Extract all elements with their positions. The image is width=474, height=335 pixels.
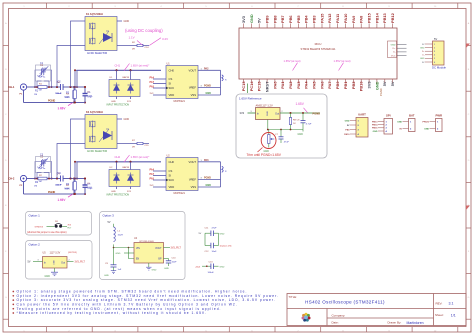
ground U4 — [148, 263, 150, 267]
svg-text:CH0: CH0 — [169, 68, 175, 72]
svg-text:PB7: PB7 — [280, 15, 285, 23]
wire riser to PGA input — [74, 70, 76, 87]
svg-text:3: 3 — [38, 260, 39, 262]
wire out net — [280, 112, 320, 114]
svg-text:STM32 BlackPill STM32F411: STM32 BlackPill STM32F411 — [301, 47, 336, 51]
svg-text:PA10: PA10 — [344, 133, 350, 136]
diode D2 BAT99 input protection — [116, 162, 118, 170]
svg-text:PA3: PA3 — [296, 81, 301, 89]
svg-text:PA4: PA4 — [150, 76, 155, 79]
svg-text:PC15: PC15 — [257, 81, 262, 92]
wire VREF net PGND — [198, 179, 221, 181]
MCU U3 STM32 BlackPill — [239, 28, 397, 79]
svg-text:GND: GND — [124, 118, 130, 121]
svg-text:STM3V3: STM3V3 — [35, 226, 44, 228]
svg-text:GND: GND — [124, 20, 130, 23]
wire PGA input — [77, 161, 161, 163]
svg-text:1.65V (at rest)*: 1.65V (at rest)* — [131, 64, 151, 68]
svg-text:PB10: PB10 — [359, 82, 364, 92]
svg-text:SI: SI — [169, 174, 172, 178]
svg-text:PB13: PB13 — [382, 12, 387, 23]
red trim circle — [261, 133, 276, 149]
svg-text:100nF: 100nF — [56, 185, 63, 187]
svg-text:GND: GND — [54, 260, 56, 265]
svg-text:PB14: PB14 — [374, 12, 379, 23]
svg-text:VREF: VREF — [189, 178, 197, 182]
wire PGND rail — [23, 182, 25, 194]
svg-text:GND: GND — [391, 44, 396, 46]
svg-text:PA4: PA4 — [150, 168, 155, 171]
svg-text:1.65V: 1.65V — [58, 198, 66, 202]
svg-text:PB3: PB3 — [312, 15, 317, 23]
wire PGND rail — [23, 182, 25, 194]
svg-text:1M: 1M — [39, 90, 42, 92]
svg-text:PA5: PA5 — [150, 85, 155, 88]
svg-text:5V: 5V — [108, 221, 111, 224]
svg-text:GND: GND — [420, 47, 425, 49]
wire right vertical — [220, 70, 222, 95]
svg-text:3.1: 3.1 — [449, 302, 454, 306]
svg-text:SI: SI — [169, 82, 172, 86]
svg-text:K2 AQY210EH: K2 AQY210EH — [86, 111, 103, 114]
svg-text:3V3: 3V3 — [241, 15, 246, 23]
border marker right 1 — [466, 44, 470, 49]
svg-text:0R: 0R — [132, 147, 135, 149]
wire PGND rail — [23, 90, 25, 102]
svg-text:Drawn By:: Drawn By: — [388, 321, 402, 325]
MCU pin labels — [241, 12, 395, 92]
option 1 block — [26, 212, 92, 236]
svg-text:0R: 0R — [132, 49, 135, 51]
svg-text:REV:: REV: — [436, 302, 443, 306]
svg-text:3V3: 3V3 — [367, 81, 372, 89]
capacitor C5 47pF — [84, 87, 86, 93]
wire PGA input — [75, 69, 161, 71]
wire opto pin4 — [57, 144, 85, 179]
svg-text:NRST: NRST — [264, 81, 269, 92]
svg-text:3.2V: 3.2V — [162, 37, 168, 41]
wire PGND rail — [23, 90, 25, 102]
resistor R3 500K — [74, 87, 76, 90]
svg-text:PA7: PA7 — [327, 82, 332, 89]
svg-text:VCC: VCC — [391, 55, 396, 57]
wire trimmer leads — [36, 81, 38, 87]
svg-text:CH-1: CH-1 — [8, 85, 15, 89]
svg-text:Out: Out — [61, 262, 65, 265]
svg-text:5V: 5V — [257, 18, 262, 23]
svg-text:1M: 1M — [39, 181, 42, 183]
border marker right 2 — [466, 206, 470, 211]
svg-text:GND: GND — [45, 275, 51, 278]
svg-text:PC14: PC14 — [249, 81, 254, 92]
capacitor C5 47pF — [84, 87, 86, 94]
svg-text:*Measure influenced by testing: *Measure influenced by testing instrumen… — [17, 311, 207, 315]
svg-text:SCK: SCK — [169, 86, 175, 90]
svg-text:PA11: PA11 — [335, 13, 340, 23]
svg-text:PA9: PA9 — [351, 15, 356, 23]
svg-text:CS: CS — [169, 77, 173, 81]
svg-text:D-: D- — [393, 52, 396, 54]
notes text block — [12, 290, 278, 316]
title block — [287, 294, 466, 326]
svg-text:TITLE:: TITLE: — [289, 295, 298, 299]
svg-text:GND: GND — [220, 233, 225, 235]
wire SPI control nets — [153, 78, 166, 80]
svg-text:PA0: PA0 — [272, 82, 277, 89]
svg-text:CS: CS — [169, 169, 173, 173]
1.65V reference block — [236, 94, 327, 158]
capacitor C6 47pF — [84, 179, 86, 185]
svg-text:(Option 2/3): (Option 2/3) — [220, 245, 232, 248]
svg-text:PGND: PGND — [204, 177, 211, 180]
opto pin2 GND — [117, 118, 122, 120]
option 3 block — [100, 212, 186, 280]
svg-text:SPI: SPI — [386, 114, 391, 118]
svg-text:PROG: PROG — [423, 121, 430, 123]
diode D1 BAT99 input protection — [116, 70, 118, 79]
svg-text:7pF ca: 7pF ca — [37, 76, 44, 78]
svg-text:PB5: PB5 — [296, 15, 301, 23]
svg-text:PB4: PB4 — [304, 15, 309, 23]
svg-text:PGND: PGND — [48, 99, 55, 102]
logo — [302, 313, 311, 322]
svg-text:(using DC coupling): (using DC coupling) — [125, 28, 163, 33]
trimmer RV1 — [268, 130, 270, 135]
svg-text:MCP6S21: MCP6S21 — [174, 100, 186, 103]
svg-text:PGND: PGND — [379, 88, 383, 96]
svg-text:Option 2: Option 2 — [29, 243, 41, 247]
svg-text:BAT99: BAT99 — [123, 166, 130, 169]
svg-text:3V3_FILT: 3V3_FILT — [75, 261, 86, 264]
svg-text:INPUT PROTECTION: INPUT PROTECTION — [107, 104, 130, 106]
svg-text:GND: GND — [111, 191, 116, 193]
wire gnd mid — [267, 120, 269, 130]
svg-text:47pF: 47pF — [88, 188, 94, 190]
svg-text:GND: GND — [345, 120, 350, 122]
wire riser to PGA input — [74, 162, 76, 179]
svg-text:CH0: CH0 — [169, 160, 175, 164]
svg-text:PA8: PA8 — [359, 15, 364, 23]
option 2 block — [26, 241, 93, 280]
jumper W1 — [47, 225, 55, 227]
trimmer capacitor C1 7pF — [36, 65, 51, 81]
svg-text:CH-2: CH-2 — [8, 176, 15, 180]
svg-text:GND: GND — [424, 128, 429, 130]
svg-text:1117-3.3V: 1117-3.3V — [50, 252, 61, 255]
capacitor C4 100nF — [59, 176, 61, 182]
svg-text:EN: EN — [136, 258, 140, 260]
svg-text:CH1: CH1 — [115, 64, 121, 68]
wire to VIN — [114, 244, 135, 247]
svg-text:PB15: PB15 — [372, 128, 378, 130]
svg-text:GND: GND — [267, 111, 269, 116]
svg-text:VDD: VDD — [169, 93, 175, 97]
svg-text:GND: GND — [397, 121, 402, 123]
wire riser to PGA input — [76, 162, 78, 179]
svg-text:PA3: PA3 — [204, 159, 209, 162]
wire VOUT — [164, 247, 171, 249]
svg-text:3V3: 3V3 — [68, 225, 71, 227]
svg-text:BP: BP — [158, 258, 162, 260]
svg-text:1.65V (at rest): 1.65V (at rest) — [284, 59, 301, 63]
resistor R4 500K — [74, 179, 76, 182]
capacitor C4 100nF — [59, 176, 61, 182]
svg-text:G: G — [5, 297, 7, 299]
svg-text:500K: 500K — [65, 188, 71, 190]
wire opto pin1 — [71, 21, 86, 87]
svg-text:500K: 500K — [65, 96, 71, 98]
svg-text:PA15: PA15 — [319, 13, 324, 23]
svg-text:3V3_FILT: 3V3_FILT — [171, 247, 182, 250]
svg-text:AC/DC SELECTOR: AC/DC SELECTOR — [87, 150, 107, 153]
wire EN tie — [129, 248, 135, 259]
svg-text:GND: GND — [164, 268, 169, 270]
svg-text:GND: GND — [249, 14, 254, 23]
wire right vertical — [220, 162, 222, 187]
svg-text:GND: GND — [152, 270, 157, 272]
svg-text:PB1: PB1 — [343, 81, 348, 89]
inductor L1 10uH — [113, 224, 115, 227]
svg-text:PWR: PWR — [435, 114, 442, 118]
svg-text:1uF: 1uF — [118, 269, 122, 271]
svg-text:10uH: 10uH — [118, 234, 124, 236]
MCU usb pins — [388, 41, 397, 58]
svg-text:PB0: PB0 — [335, 82, 340, 90]
svg-text:GND: GND — [374, 81, 379, 90]
svg-text:BAT: BAT — [409, 114, 415, 118]
svg-text:GND: GND — [206, 184, 212, 187]
svg-text:PA4: PA4 — [304, 81, 309, 89]
svg-text:Option 3: Option 3 — [103, 214, 115, 218]
svg-text:MCU: MCU — [315, 42, 322, 46]
svg-text:GND: GND — [220, 266, 225, 268]
wire main input — [27, 86, 61, 88]
svg-text:47pF: 47pF — [88, 97, 94, 99]
svg-text:PA2: PA2 — [204, 68, 209, 71]
svg-text:47uF: 47uF — [284, 142, 290, 144]
wire VREF net PGND — [198, 87, 221, 89]
svg-text:Option 1: Option 1 — [29, 214, 41, 218]
capacitor C2 100nF — [59, 84, 61, 90]
svg-text:AC/DC SELECTOR: AC/DC SELECTOR — [87, 52, 107, 55]
svg-text:VIN: VIN — [136, 248, 140, 250]
wire U4 gnd left — [124, 252, 134, 254]
resistor R8 1K — [290, 113, 292, 118]
resistor R1 1M — [38, 86, 47, 89]
svg-text:PA12: PA12 — [327, 13, 332, 23]
ground — [54, 268, 56, 272]
svg-text:PA7: PA7 — [150, 173, 155, 176]
capacitor C2 100nF — [59, 84, 61, 90]
wire 3V3 in — [248, 112, 256, 114]
svg-text:2: 2 — [69, 260, 70, 262]
wire SPI control nets — [153, 170, 166, 172]
wire opto pin1 — [71, 119, 86, 179]
svg-text:1.65V: 1.65V — [58, 106, 66, 110]
wire VSS net GND — [198, 186, 221, 188]
svg-text:1M: 1M — [34, 94, 37, 96]
svg-text:PC13: PC13 — [241, 81, 246, 92]
capacitor C10 10nF — [164, 258, 169, 260]
svg-text:PGND: PGND — [313, 112, 321, 116]
svg-text:(NOTE3): (NOTE3) — [68, 252, 77, 254]
resistor R2 1M — [38, 177, 47, 180]
wire main input — [27, 86, 61, 88]
svg-text:GND: GND — [104, 275, 109, 277]
capacitor C7 47uF — [280, 130, 282, 137]
wire VOUT net — [198, 69, 221, 71]
svg-text:HS402 Oscilloscope (STM32F411): HS402 Oscilloscope (STM32F411) — [305, 300, 385, 305]
svg-text:+Batt: +Batt — [195, 265, 201, 268]
svg-text:Martinloren: Martinloren — [407, 321, 424, 325]
svg-text:GND: GND — [420, 58, 425, 60]
wire opto pin3 / resistor R7 0R — [117, 143, 149, 145]
trimmer capacitor C3 7pF — [36, 157, 51, 173]
svg-text:VOUT: VOUT — [189, 160, 197, 164]
svg-text:GND: GND — [111, 101, 116, 103]
svg-text:2: 2 — [282, 111, 283, 113]
svg-text:Trim until PGND=1.65V: Trim until PGND=1.65V — [247, 153, 282, 157]
svg-text:PA5: PA5 — [312, 81, 317, 89]
svg-text:PB8: PB8 — [272, 15, 277, 23]
resistor R4 500K — [73, 179, 75, 183]
svg-text:INPUT PROTECTION: INPUT PROTECTION — [107, 194, 130, 196]
svg-text:1.65V (at rest)*: 1.65V (at rest)* — [131, 155, 151, 159]
svg-text:G: G — [468, 297, 470, 299]
svg-text:PB6: PB6 — [288, 15, 293, 23]
wire VSS net GND — [198, 94, 221, 96]
wire main input — [27, 178, 61, 180]
svg-text:10nF: 10nF — [172, 261, 178, 263]
svg-text:PB12: PB12 — [390, 12, 395, 23]
svg-text:10uF: 10uF — [212, 251, 218, 253]
svg-text:PB13: PB13 — [372, 121, 378, 123]
svg-text:5V: 5V — [390, 81, 395, 86]
svg-text:VOUT: VOUT — [155, 248, 162, 250]
svg-text:5V: 5V — [382, 81, 387, 86]
svg-text:4.7uF: 4.7uF — [306, 124, 312, 126]
svg-text:PA7: PA7 — [150, 81, 155, 84]
svg-text:Sheet:: Sheet: — [435, 313, 444, 317]
svg-text:Company:: Company: — [332, 314, 346, 318]
svg-text:1M: 1M — [34, 186, 37, 188]
svg-text:PA1: PA1 — [280, 81, 285, 89]
wire MCU gnd down — [246, 84, 248, 94]
svg-text:PB15: PB15 — [367, 12, 372, 23]
capacitor C12 10uF — [204, 233, 206, 245]
wire PGA input — [75, 161, 161, 163]
svg-text:MCP6S21: MCP6S21 — [174, 192, 186, 195]
wire opto pin3 / resistor R2 0R — [117, 45, 149, 47]
svg-text:3V3: 3V3 — [240, 111, 245, 115]
MCU pin stubs — [244, 24, 393, 84]
svg-text:(shortcut this jumper to use t: (shortcut this jumper to use this option… — [27, 231, 67, 234]
svg-text:VSS: VSS — [191, 185, 197, 189]
svg-text:1.65V Reference: 1.65V Reference — [239, 96, 262, 100]
svg-text:1.1V: 1.1V — [129, 36, 135, 40]
svg-text:3: 3 — [251, 111, 252, 113]
svg-text:VREF: VREF — [189, 86, 197, 90]
svg-text:5V: 5V — [434, 37, 437, 41]
svg-text:PGND: PGND — [48, 191, 55, 194]
svg-text:SCK: SCK — [169, 178, 175, 182]
resistor R3 500K — [73, 87, 75, 91]
svg-text:D-: D- — [422, 55, 424, 57]
capacitor C9 1uF — [113, 248, 115, 265]
svg-text:GND: GND — [373, 131, 378, 133]
wire opto pin4 — [57, 46, 85, 88]
capacitor C6 47pF — [84, 179, 86, 186]
svg-text:DC Module: DC Module — [432, 66, 446, 70]
svg-text:PA6: PA6 — [319, 81, 324, 89]
resistor R2 1M — [38, 177, 47, 180]
resistor R1 1M — [38, 86, 47, 89]
svg-text:5V: 5V — [28, 261, 31, 264]
svg-text:7pF ca: 7pF ca — [37, 167, 44, 169]
wire riser to PGA input — [76, 70, 78, 87]
svg-text:PGND: PGND — [204, 85, 211, 88]
svg-text:1/1: 1/1 — [451, 313, 456, 317]
svg-text:VDD: VDD — [169, 185, 175, 189]
wire main input — [27, 178, 61, 180]
svg-text:100nF: 100nF — [208, 272, 215, 274]
svg-text:BAT99: BAT99 — [123, 76, 130, 79]
svg-text:PA5: PA5 — [150, 177, 155, 180]
svg-text:UART: UART — [358, 113, 366, 117]
svg-text:Out: Out — [275, 113, 279, 116]
svg-text:PA10: PA10 — [343, 14, 348, 23]
svg-text:47uF: 47uF — [212, 228, 218, 230]
wire VOUT net — [198, 161, 221, 163]
wire trimmer leads — [36, 173, 38, 179]
opto pin2 GND — [117, 20, 122, 22]
svg-text:Date:: Date: — [332, 321, 339, 325]
svg-text:100nF: 100nF — [56, 93, 63, 95]
svg-text:AMS1117-1.2V: AMS1117-1.2V — [256, 104, 273, 108]
svg-text:VOUT: VOUT — [189, 68, 197, 72]
svg-text:VSS: VSS — [191, 93, 197, 97]
svg-text:1.65V (at rest): 1.65V (at rest) — [334, 59, 351, 63]
svg-text:PB9: PB9 — [264, 15, 269, 23]
svg-text:PB2: PB2 — [351, 81, 356, 89]
svg-text:GND: GND — [116, 253, 121, 255]
capacitor C8 4.7uF — [302, 113, 304, 121]
svg-text:K1 AQY210EH: K1 AQY210EH — [86, 13, 103, 16]
wire PGA input — [77, 69, 161, 71]
svg-text:CH2: CH2 — [115, 155, 121, 159]
svg-text:GND: GND — [206, 92, 212, 95]
svg-text:1.65V: 1.65V — [296, 102, 305, 106]
svg-text:PA2: PA2 — [288, 81, 293, 89]
svg-text:GND: GND — [298, 133, 304, 136]
svg-text:PB14: PB14 — [372, 124, 378, 127]
